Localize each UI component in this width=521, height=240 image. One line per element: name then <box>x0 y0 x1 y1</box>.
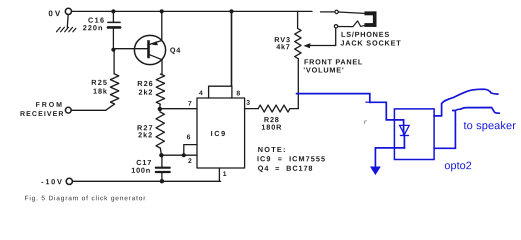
capacitor C17 <box>161 155 163 166</box>
svg-text:3: 3 <box>246 100 250 107</box>
wire speaker lower <box>434 108 499 149</box>
svg-text:4: 4 <box>199 90 203 97</box>
node rail-Q4 <box>160 9 164 13</box>
svg-text:LS/PHONES: LS/PHONES <box>341 30 390 39</box>
ground chassis <box>57 27 76 32</box>
node pin7 <box>158 107 162 111</box>
svg-text:RECEIVER: RECEIVER <box>20 111 65 118</box>
wire base <box>113 48 147 50</box>
svg-text:2k2: 2k2 <box>139 88 154 97</box>
resistor R26 <box>156 74 164 104</box>
transistor Q4 <box>134 11 165 74</box>
resistor R27 <box>156 112 164 148</box>
svg-text:0V: 0V <box>48 9 62 18</box>
svg-text:to speaker: to speaker <box>463 120 516 132</box>
LED diode inside opto <box>400 125 410 134</box>
svg-text:180R: 180R <box>261 123 282 132</box>
node C17-rail <box>160 179 164 183</box>
blue ground arrow <box>371 167 380 174</box>
wire switch lower contact <box>338 21 365 27</box>
svg-text:1: 1 <box>223 171 227 178</box>
wire blue to opto <box>370 102 404 135</box>
potentiometer RV3 <box>297 11 299 28</box>
RV3 wiper arrow <box>304 43 311 48</box>
svg-text:'VOLUME': 'VOLUME' <box>303 66 344 75</box>
wire pin6 <box>184 145 197 156</box>
pin 1 lead <box>218 168 220 181</box>
svg-text:2: 2 <box>188 158 192 165</box>
wire pin7 <box>160 108 197 110</box>
terminal FROM RECEIVER <box>65 107 71 113</box>
svg-text:18k: 18k <box>93 87 108 96</box>
svg-text:IC9: IC9 <box>211 129 227 138</box>
wire pin3 <box>245 108 259 110</box>
svg-text:-10V: -10V <box>41 177 63 186</box>
svg-text:7: 7 <box>188 101 192 108</box>
wire switch upper <box>321 11 335 13</box>
wire opto cathode to ground arrow <box>375 148 404 167</box>
wire receiver <box>71 109 105 111</box>
opto2 box <box>394 109 434 160</box>
pins 4+8 bracket <box>209 86 232 98</box>
node pin6 join <box>182 153 186 157</box>
wire top 0V rail <box>72 10 312 12</box>
LS/PHONES jack socket symbol <box>364 11 376 27</box>
wire terminal to ground <box>66 15 69 28</box>
capacitor C16 <box>112 11 114 21</box>
wire bottom -10V rail <box>73 180 221 182</box>
resistor R28 <box>258 105 290 112</box>
node pin2/C17 <box>159 153 163 157</box>
svg-text:FROM: FROM <box>36 102 64 109</box>
svg-text:JACK SOCKET: JACK SOCKET <box>340 39 401 48</box>
svg-text:6: 6 <box>187 134 191 141</box>
jack switch contact circles <box>335 10 338 13</box>
svg-text:Q4 = BC178: Q4 = BC178 <box>258 164 314 173</box>
svg-text:IC9 = ICM7555: IC9 = ICM7555 <box>257 154 326 163</box>
terminal 0V <box>65 8 71 14</box>
svg-text:100n: 100n <box>131 166 151 175</box>
svg-text:NOTE:: NOTE: <box>258 145 287 154</box>
svg-text:opto2: opto2 <box>444 160 472 172</box>
node base <box>111 48 115 52</box>
svg-text:Fig. 5 Diagram of click genera: Fig. 5 Diagram of click generator <box>25 195 147 202</box>
wire speaker upper <box>434 89 498 116</box>
artifact mark <box>365 121 367 124</box>
wire rail to bracket <box>231 11 233 86</box>
IC op-amp U1 IC9 box <box>197 98 245 168</box>
svg-text:4k7: 4k7 <box>276 42 290 51</box>
svg-text:R25: R25 <box>91 78 108 87</box>
svg-text:8: 8 <box>236 90 240 97</box>
terminal -10V <box>66 178 72 184</box>
resistor R25 <box>110 74 118 104</box>
wire blue tap from RV3 bottom <box>297 94 370 103</box>
node rail-C16 <box>111 9 115 13</box>
svg-text:220n: 220n <box>83 23 104 32</box>
blue tick <box>366 101 371 103</box>
svg-text:Q4: Q4 <box>170 46 181 55</box>
wire pin2 <box>161 154 197 156</box>
node rail-IC <box>229 9 233 13</box>
svg-text:2k2: 2k2 <box>138 130 153 139</box>
